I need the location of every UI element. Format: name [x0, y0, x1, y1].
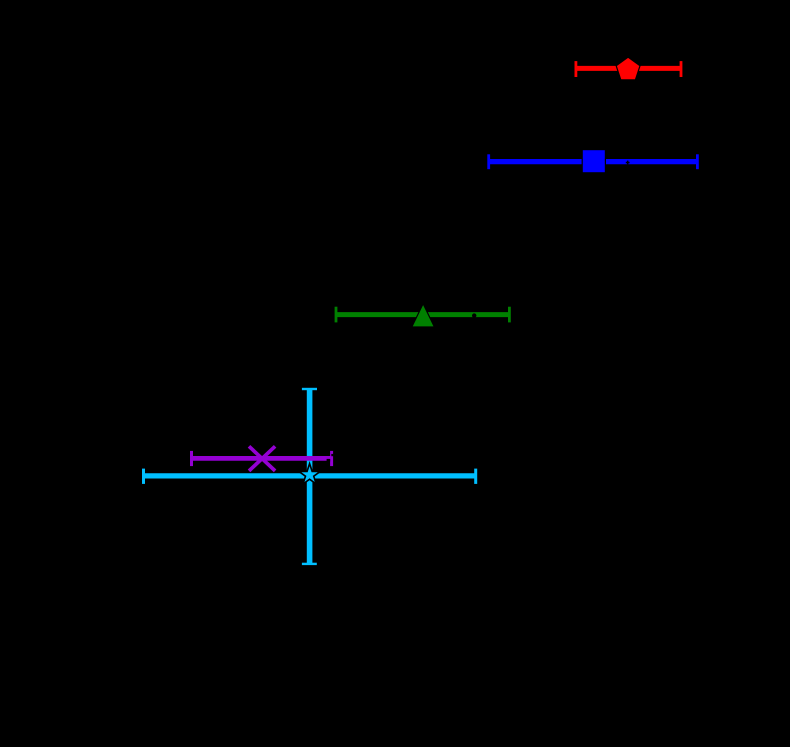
red errorbar right cap — [680, 61, 683, 77]
green triangle marker — [412, 304, 435, 327]
green errorbar right cap — [508, 307, 511, 323]
green errorbar left cap — [335, 307, 338, 323]
hidden black marker over violet cap — [331, 454, 333, 456]
violet errorbar line — [192, 456, 332, 461]
hidden black dot marker on green bar — [472, 313, 476, 317]
cyan errorbar vertical line — [307, 389, 313, 564]
blue square marker — [582, 150, 605, 173]
cyan errorbar horizontal line — [144, 473, 476, 478]
cyan errorbar right cap — [474, 469, 477, 484]
cyan errorbar top cap — [302, 388, 317, 390]
violet errorbar left cap — [190, 451, 193, 466]
blue errorbar left cap — [487, 154, 490, 169]
violet X marker — [249, 446, 275, 471]
red errorbar left cap — [575, 61, 578, 77]
blue errorbar right cap — [696, 154, 699, 169]
cyan star marker — [299, 464, 321, 484]
cyan errorbar left cap — [142, 469, 145, 484]
violet errorbar right cap — [330, 451, 333, 466]
cyan errorbar bottom cap — [302, 563, 317, 565]
hidden black plus marker on blue bar — [626, 161, 630, 165]
blue errorbar line — [489, 159, 698, 164]
red errorbar line — [576, 66, 681, 71]
green errorbar line — [336, 312, 509, 317]
red pentagon marker — [616, 57, 640, 80]
